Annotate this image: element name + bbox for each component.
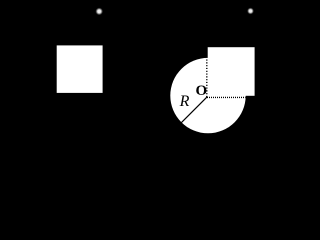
dotted vertical line (square left edge inside disc) [206, 60, 208, 98]
radius line R [181, 97, 207, 123]
svg-text:O: O [196, 83, 208, 99]
particle dot above square (figure b) [247, 8, 254, 15]
dotted horizontal line (square bottom edge across disc) [207, 96, 245, 98]
particle dot above square (figure a) [95, 7, 103, 15]
square plate (figure a) [57, 45, 103, 93]
circular disc of radius R (figure b) [170, 58, 245, 133]
svg-text:R: R [179, 93, 190, 110]
square plate (figure b) [208, 47, 255, 96]
